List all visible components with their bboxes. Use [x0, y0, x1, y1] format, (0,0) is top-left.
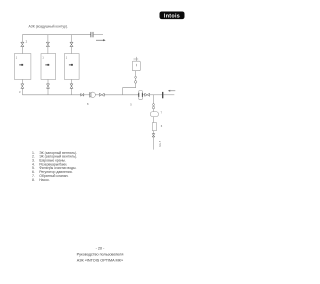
svg-text:2: 2 [26, 39, 28, 43]
svg-text:к ТРК: к ТРК [158, 141, 160, 148]
svg-text:АЗК «INTOIS OPTIMA MK»: АЗК «INTOIS OPTIMA MK» [77, 258, 123, 262]
svg-text:- 20 -: - 20 - [96, 246, 106, 250]
svg-text:Руководство пользователя: Руководство пользователя [77, 252, 124, 256]
svg-text:АЗК (воздушный контур).: АЗК (воздушный контур). [29, 25, 68, 29]
svg-text:1: 1 [42, 56, 44, 59]
svg-text:1: 1 [66, 56, 68, 59]
svg-text:1: 1 [16, 56, 18, 59]
svg-text:8.: 8. [32, 178, 35, 182]
svg-text:Intois: Intois [164, 13, 180, 19]
svg-text:6: 6 [161, 124, 163, 128]
svg-text:5: 5 [130, 102, 132, 106]
svg-text:8: 8 [87, 102, 89, 106]
svg-text:3: 3 [19, 90, 21, 94]
svg-text:Насос.: Насос. [39, 178, 50, 182]
svg-text:7: 7 [161, 111, 163, 115]
